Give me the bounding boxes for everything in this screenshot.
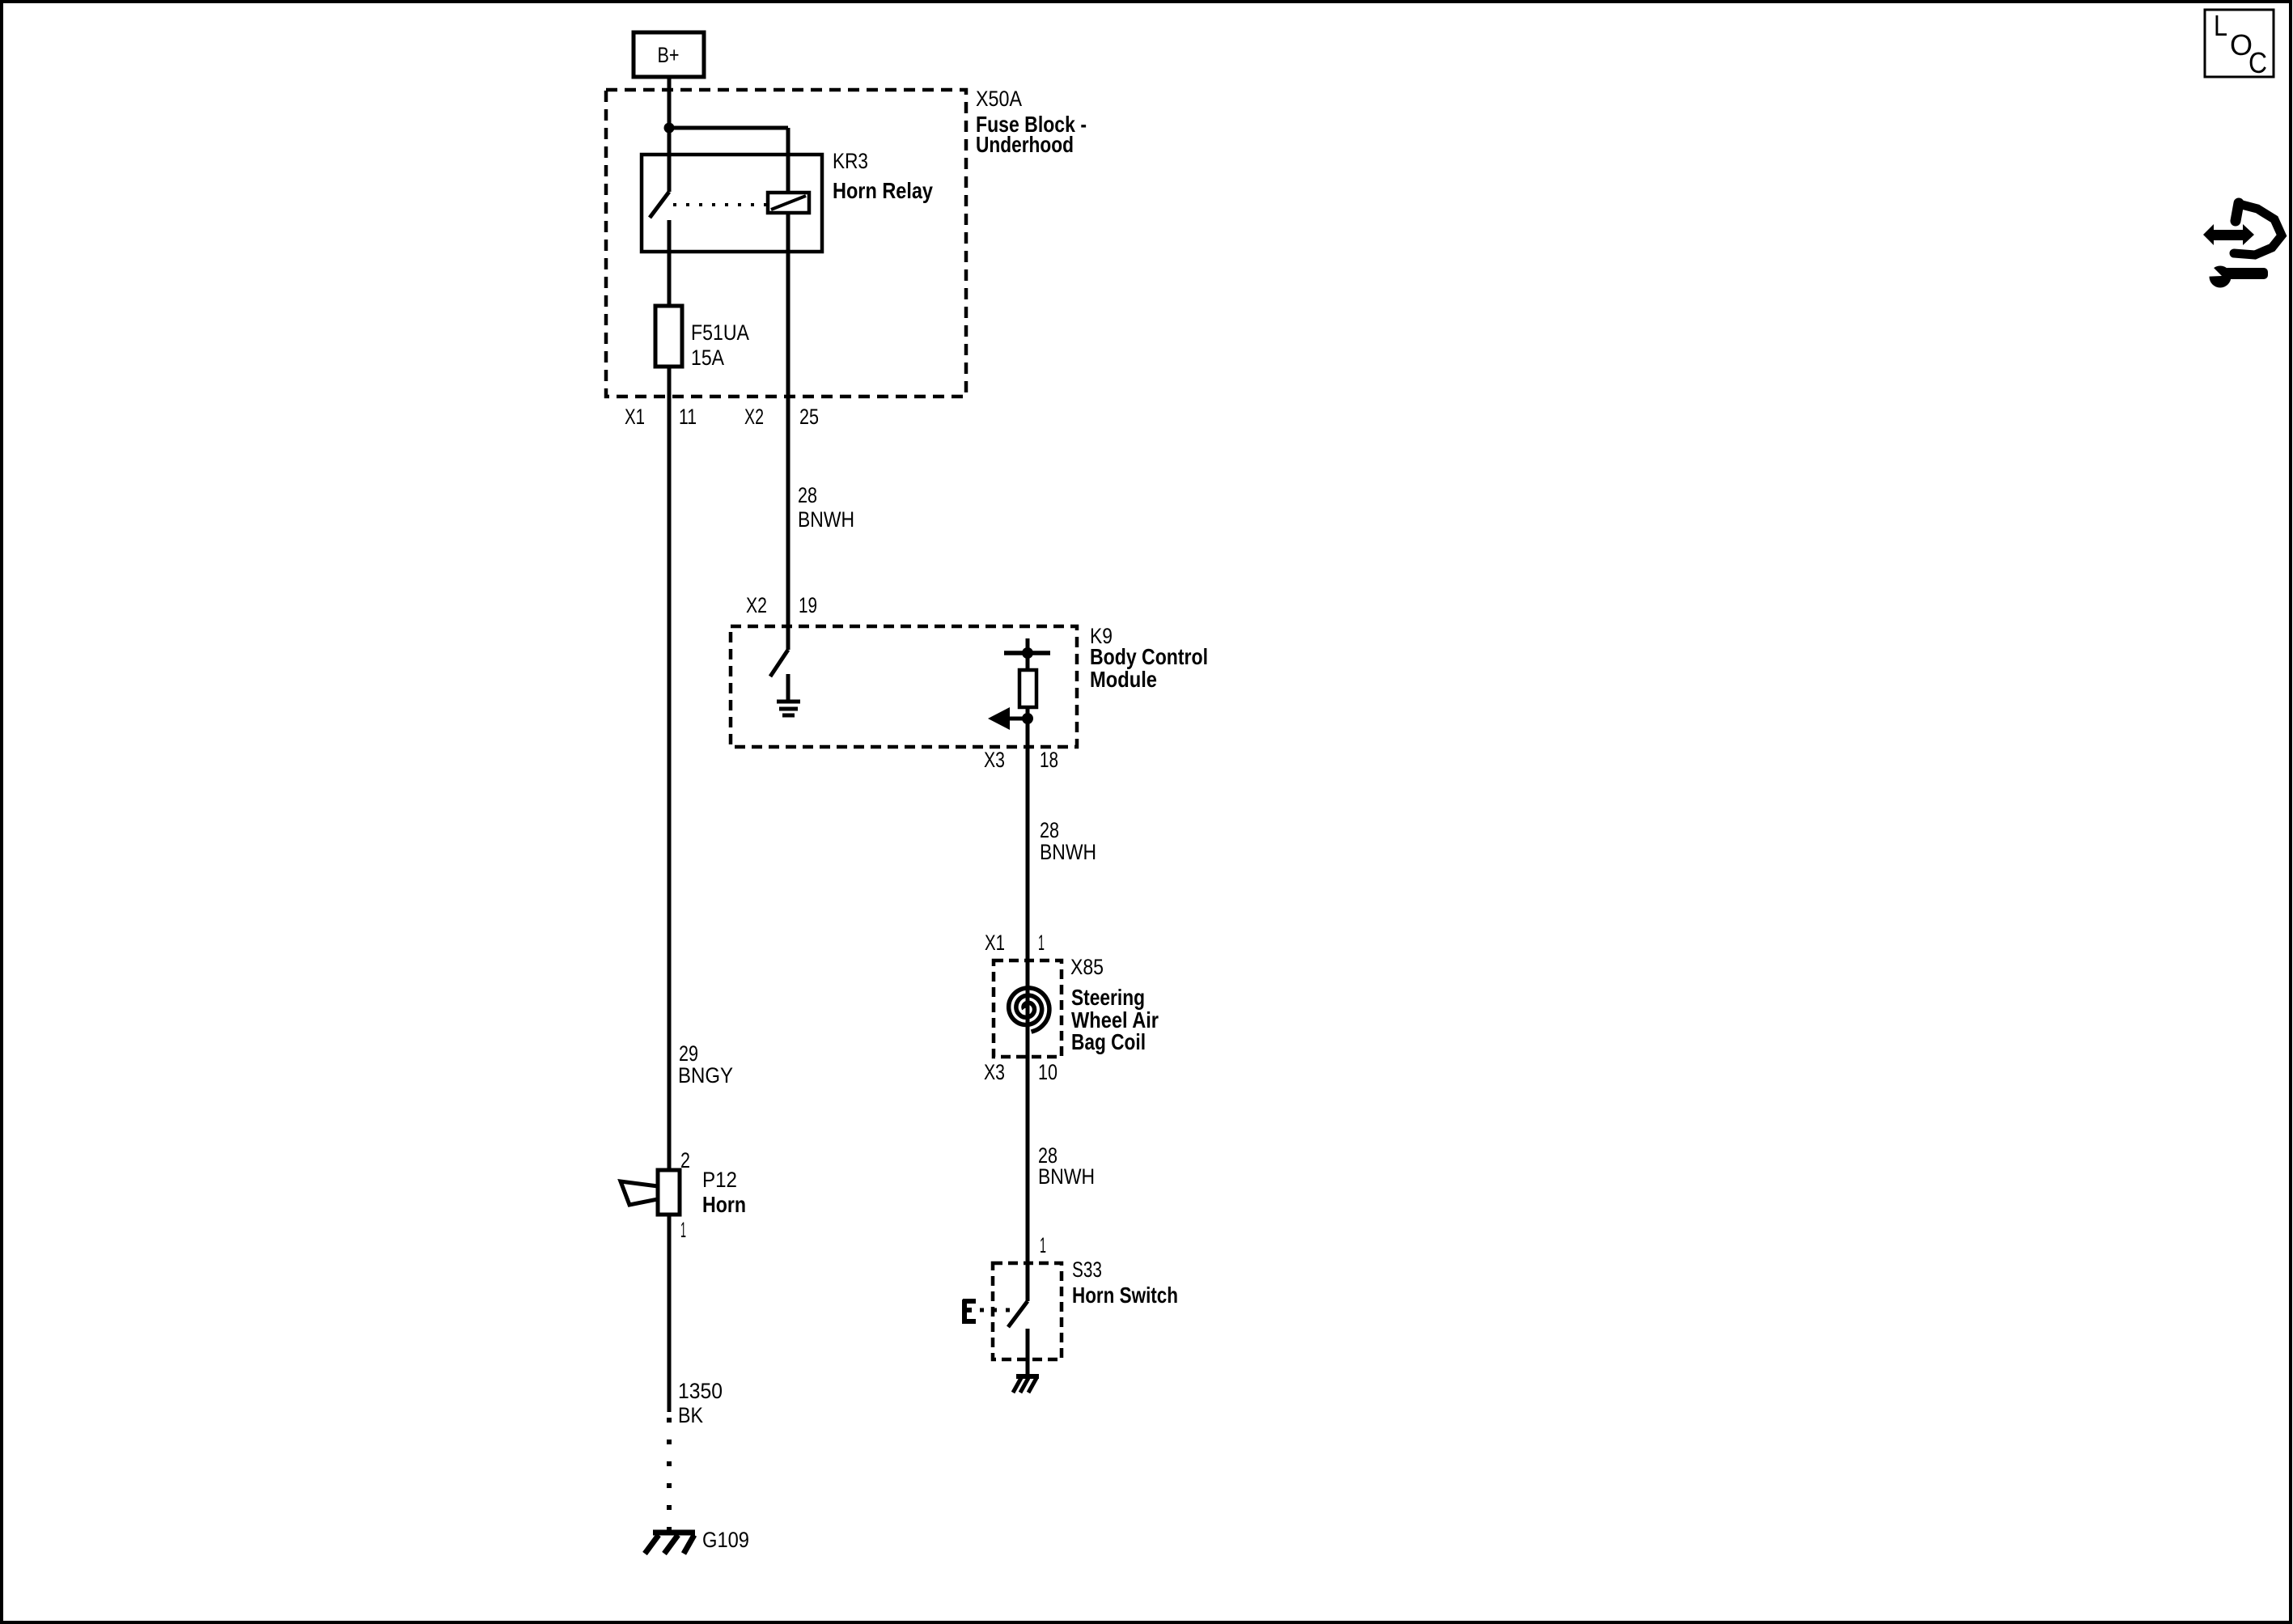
svg-text:Module: Module <box>1090 667 1157 692</box>
svg-text:P12: P12 <box>702 1168 737 1192</box>
svg-text:G109: G109 <box>702 1528 749 1552</box>
svg-text:X2: X2 <box>746 593 767 617</box>
svg-text:1350: 1350 <box>678 1379 723 1403</box>
svg-text:X1: X1 <box>985 931 1005 955</box>
svg-text:C: C <box>2248 46 2267 79</box>
svg-text:Steering: Steering <box>1071 985 1145 1010</box>
svg-text:Horn: Horn <box>702 1192 746 1217</box>
svg-text:BNWH: BNWH <box>798 507 854 532</box>
svg-text:1: 1 <box>1040 1233 1046 1257</box>
svg-text:19: 19 <box>799 593 817 617</box>
svg-text:Bag Coil: Bag Coil <box>1071 1029 1146 1054</box>
svg-text:28: 28 <box>1040 818 1059 842</box>
svg-text:1: 1 <box>680 1218 686 1242</box>
svg-text:25: 25 <box>799 405 819 429</box>
svg-text:1: 1 <box>1038 931 1045 955</box>
svg-text:X3: X3 <box>984 748 1005 772</box>
svg-text:18: 18 <box>1040 748 1058 772</box>
svg-text:B+: B+ <box>658 43 680 67</box>
svg-text:BK: BK <box>678 1403 703 1427</box>
svg-text:Horn Switch: Horn Switch <box>1072 1283 1178 1308</box>
svg-text:28: 28 <box>798 483 817 507</box>
svg-text:F51UA: F51UA <box>691 320 749 345</box>
svg-text:L: L <box>2214 9 2227 42</box>
svg-text:11: 11 <box>679 405 697 429</box>
svg-text:Underhood: Underhood <box>976 132 1074 157</box>
svg-text:X2: X2 <box>744 405 764 429</box>
svg-text:X3: X3 <box>984 1060 1005 1084</box>
svg-text:29: 29 <box>679 1041 698 1066</box>
svg-text:Horn Relay: Horn Relay <box>833 178 933 203</box>
svg-text:X85: X85 <box>1070 955 1104 979</box>
svg-text:Body Control: Body Control <box>1090 644 1208 669</box>
svg-text:S33: S33 <box>1072 1257 1102 1282</box>
svg-text:KR3: KR3 <box>833 149 868 173</box>
svg-text:10: 10 <box>1038 1060 1057 1084</box>
svg-text:X50A: X50A <box>976 87 1022 111</box>
svg-text:BNWH: BNWH <box>1040 840 1096 864</box>
svg-text:2: 2 <box>680 1148 690 1172</box>
svg-text:X1: X1 <box>625 405 645 429</box>
svg-text:BNGY: BNGY <box>678 1063 733 1088</box>
svg-text:BNWH: BNWH <box>1038 1164 1095 1189</box>
svg-text:15A: 15A <box>691 346 724 370</box>
